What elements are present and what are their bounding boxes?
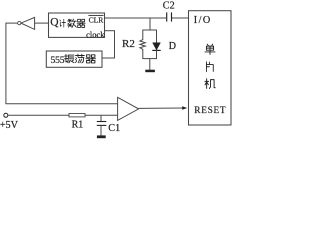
label 器 (of 计数器) bbox=[77, 19, 85, 27]
svg-text:clock: clock bbox=[86, 29, 105, 39]
label 数 (of 计数器) bbox=[68, 19, 77, 27]
inverter gate triangle bbox=[21, 17, 35, 29]
resistor R2 (zigzag) bbox=[140, 30, 145, 59]
inverter gate (output bubble) bbox=[18, 21, 21, 24]
capacitor C1 top lead bbox=[100, 115, 102, 121]
555 oscillator box U3 bbox=[46, 51, 102, 67]
svg-text:CLR: CLR bbox=[89, 15, 105, 24]
svg-text:RESET: RESET bbox=[194, 106, 226, 116]
wire: inverter output to left edge bbox=[6, 22, 18, 24]
wire: top bar joining R2 and D bbox=[143, 29, 157, 31]
wire: bottom bar joining R2 and D bbox=[143, 58, 157, 60]
svg-text:I/O: I/O bbox=[194, 15, 212, 26]
label 计 (of 计数器) bbox=[60, 19, 66, 27]
ground (R2/D node) bbox=[145, 70, 155, 73]
wire: counter clock pin east bbox=[105, 30, 115, 32]
label 器 (of 振荡器) bbox=[86, 55, 95, 63]
counter box U1 bbox=[49, 13, 105, 37]
overline of CLR (active-low clear) bbox=[88, 14, 103, 16]
wire: 555 output to clock feed bbox=[102, 57, 115, 59]
label 机 (of 单片机) bbox=[205, 79, 215, 89]
+5V supply terminal bbox=[4, 113, 8, 117]
resistor R1 (box body) bbox=[69, 114, 85, 117]
svg-text:R2: R2 bbox=[122, 38, 135, 50]
wire: +5V to R1 bbox=[8, 114, 70, 116]
diode D cathode bar bbox=[152, 49, 160, 51]
label 荡 (of 振荡器) bbox=[75, 54, 84, 63]
svg-text:D: D bbox=[169, 41, 176, 52]
reset buffer triangle U5 bbox=[118, 97, 139, 120]
wire: clock feed vertical bbox=[114, 30, 116, 58]
capacitor C1 bottom plate bbox=[97, 124, 107, 126]
diode D triangle bbox=[153, 43, 161, 50]
wire: left vertical bus down bbox=[5, 23, 7, 104]
svg-text:555: 555 bbox=[51, 55, 65, 66]
wire: buffer output to MCU RESET bbox=[139, 107, 184, 109]
wire: lower rail from left bus to reset buffer input bbox=[6, 103, 118, 105]
svg-text:R1: R1 bbox=[72, 119, 84, 130]
microcontroller box U4 (单片机) bbox=[189, 11, 232, 125]
wire: C2 to MCU I/O pin bbox=[172, 17, 189, 19]
svg-text:C1: C1 bbox=[108, 123, 120, 134]
wire: counter Q output to inverter bbox=[35, 22, 49, 24]
diode D cathode lead bbox=[156, 50, 158, 59]
diode D anode lead bbox=[156, 30, 158, 44]
label 振 (of 振荡器) bbox=[64, 54, 74, 62]
label 片 (of 单片机) bbox=[206, 62, 213, 72]
svg-text:C2: C2 bbox=[163, 0, 175, 11]
label 单 (of 单片机) bbox=[205, 44, 215, 54]
capacitor C1 bottom lead bbox=[100, 125, 102, 135]
wire: R2/D pair down to ground bbox=[149, 59, 151, 70]
arrowhead into RESET pin bbox=[182, 106, 187, 110]
wire: R1 to C1 node and buffer input bbox=[85, 114, 118, 116]
svg-text:+5V: +5V bbox=[0, 120, 19, 131]
capacitor C1 top plate bbox=[97, 121, 107, 123]
capacitor C2 left plate bbox=[166, 12, 168, 21]
wire: CLR pin to C2 / R2-D node bbox=[105, 17, 167, 19]
capacitor C2 right plate bbox=[171, 12, 173, 21]
ground (C1) bbox=[97, 135, 106, 138]
svg-text:Q: Q bbox=[50, 17, 59, 29]
wire: node drop to R2 / D pair bbox=[149, 18, 151, 30]
